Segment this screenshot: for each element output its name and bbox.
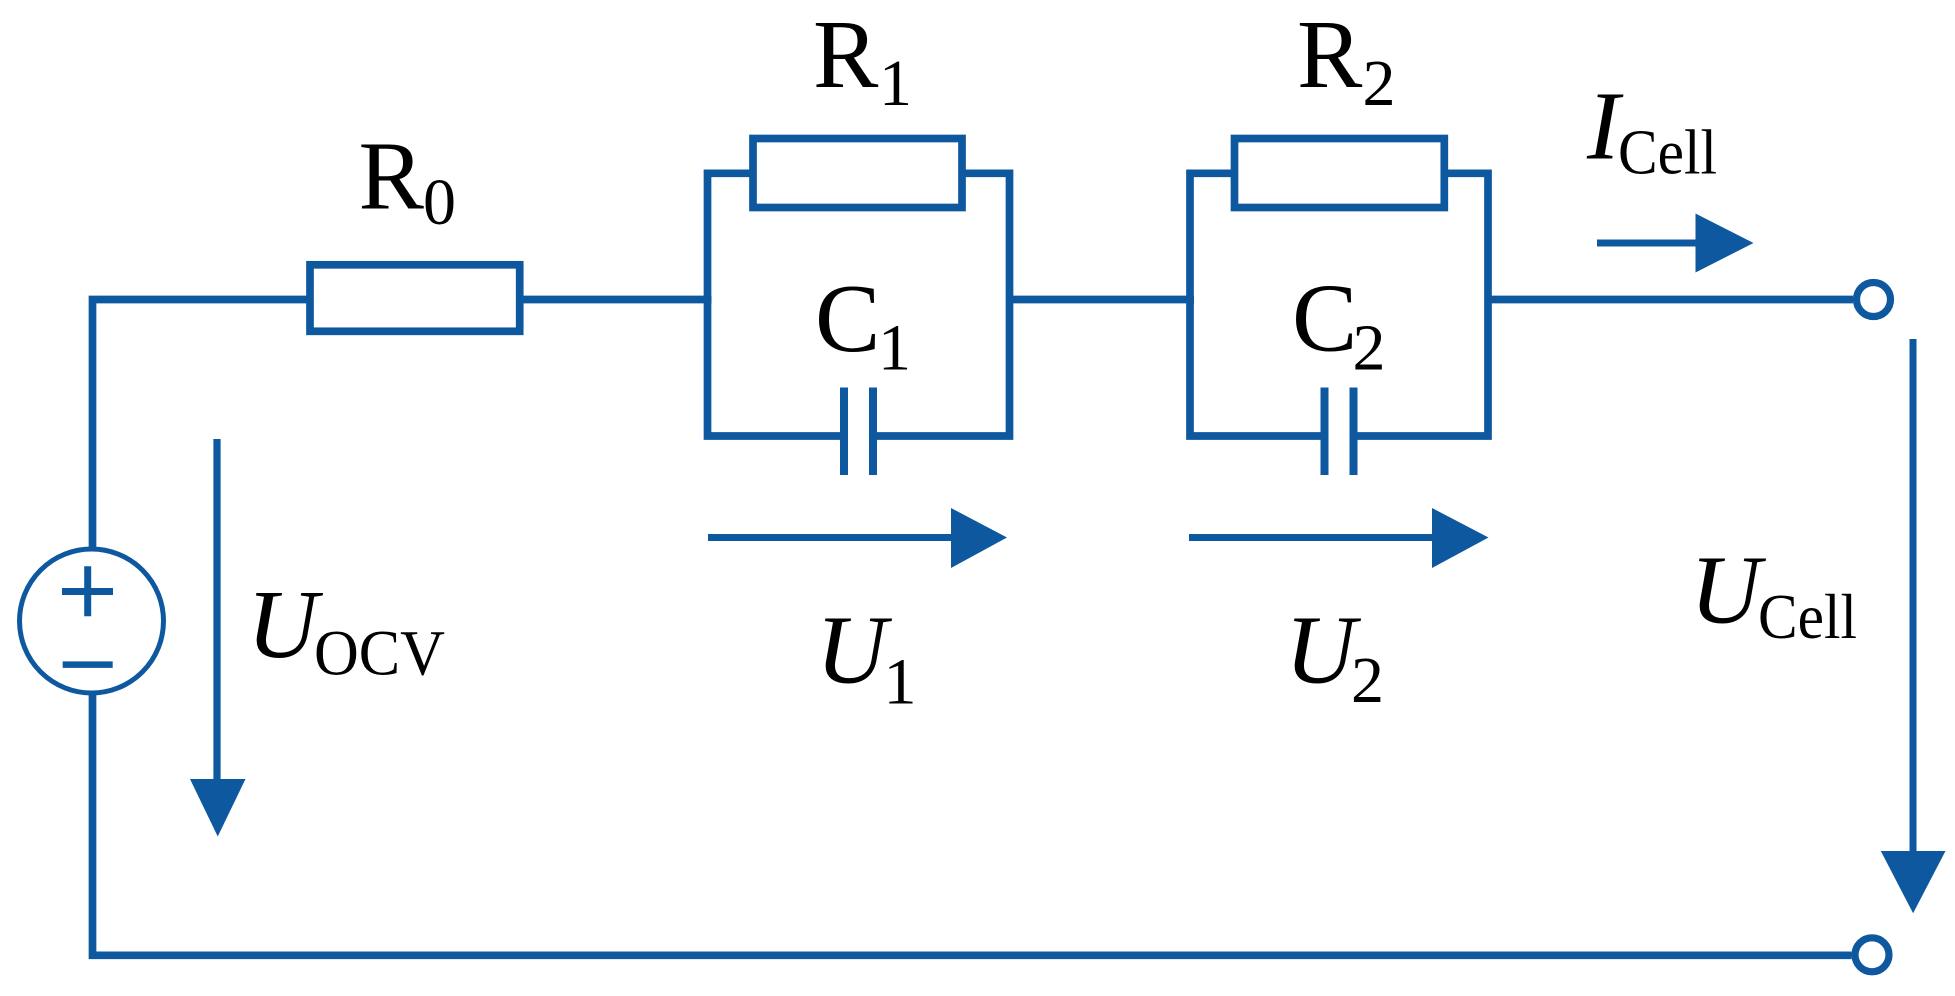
arrow U_OCV (voltage direction) [190,439,246,837]
wire: RC pair 2 right frame [1351,173,1488,436]
svg-text:C: C [1292,265,1357,373]
arrow I_Cell (current direction) [1597,214,1754,273]
label U_Cell [1690,537,1857,653]
arrow U1 (voltage across RC pair 1) [708,508,1007,568]
negative output terminal [1855,938,1889,972]
svg-text:R: R [359,122,425,230]
capacitor C2 plates [1325,388,1354,476]
voltage source minus sign [63,661,113,668]
svg-text:U: U [247,571,324,679]
label U1 [816,597,917,719]
label R2 [1297,1,1396,120]
svg-text:1: 1 [884,646,917,719]
label C2 [1292,265,1386,385]
capacitor C1 plates [844,388,873,476]
wire: source top to R0 [93,300,314,550]
svg-text:R: R [813,1,879,109]
wire: RC pair 1 to RC pair 2 [1010,296,1195,304]
wire: R0 to RC pair 1 [517,296,712,304]
wire: RC pair 1 right frame [871,173,1010,436]
svg-text:U: U [1690,537,1767,645]
svg-text:U: U [816,597,893,705]
wire: RC pair 2 left frame [1190,173,1327,436]
label R0 [359,122,457,239]
svg-text:Cell: Cell [1758,581,1857,652]
label I_Cell [1586,73,1717,188]
svg-text:2: 2 [1363,47,1396,120]
svg-text:1: 1 [879,47,912,120]
svg-text:C: C [815,265,880,373]
svg-text:2: 2 [1351,644,1384,717]
svg-text:0: 0 [423,166,456,239]
svg-text:R: R [1297,1,1363,109]
resistor R2 [1235,139,1445,208]
voltage source plus sign [62,566,113,616]
resistor R0 [310,265,520,332]
wire: RC pair 2 to positive terminal [1488,296,1853,304]
label U2 [1285,597,1384,718]
label R1 [813,1,912,120]
label C1 [815,265,911,385]
resistor R1 [753,139,962,208]
positive output terminal [1857,283,1891,317]
svg-text:2: 2 [1353,312,1386,385]
svg-text:1: 1 [878,312,911,385]
wire: bottom return from source to negative terminal [93,693,1852,955]
voltage source U_OCV circle [20,549,164,693]
wire: RC pair 1 left frame [708,173,847,436]
svg-text:Cell: Cell [1618,117,1717,188]
svg-text:OCV: OCV [314,618,445,690]
arrow U_Cell (output voltage) [1881,339,1946,913]
label U_OCV [247,571,445,690]
arrow U2 (voltage across RC pair 2) [1189,508,1489,568]
